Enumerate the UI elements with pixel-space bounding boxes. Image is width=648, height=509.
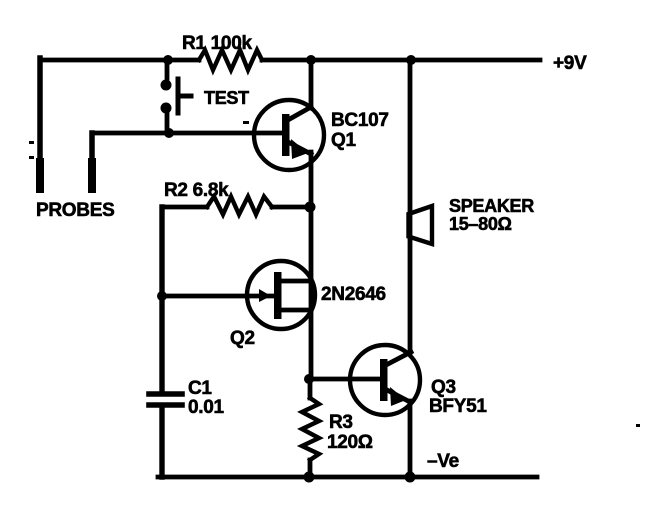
svg-text:C1: C1	[188, 378, 212, 399]
svg-text:SPEAKER: SPEAKER	[449, 196, 534, 216]
svg-text:15–80Ω: 15–80Ω	[449, 214, 512, 234]
svg-text:Q1: Q1	[331, 130, 356, 151]
svg-text:0.01: 0.01	[188, 397, 225, 418]
svg-text:TEST: TEST	[204, 88, 249, 108]
svg-text:PROBES: PROBES	[36, 200, 114, 221]
svg-text:–Ve: –Ve	[427, 451, 459, 472]
svg-text:R2 6.8k: R2 6.8k	[164, 180, 229, 201]
svg-text:2N2646: 2N2646	[321, 284, 386, 305]
svg-text:BC107: BC107	[331, 110, 389, 131]
svg-text:Q3: Q3	[431, 377, 456, 398]
svg-text:120Ω: 120Ω	[327, 432, 373, 453]
svg-text:Q2: Q2	[230, 328, 255, 349]
svg-text:R3: R3	[329, 412, 353, 433]
svg-text:BFY51: BFY51	[429, 396, 487, 417]
svg-text:+9V: +9V	[553, 53, 587, 74]
svg-text:R1 100k: R1 100k	[182, 33, 252, 54]
